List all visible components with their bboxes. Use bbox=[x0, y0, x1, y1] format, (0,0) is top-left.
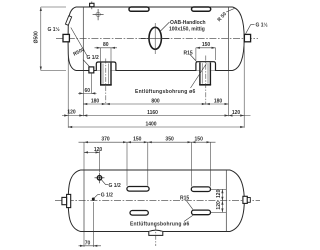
bottom nozzle 2 pipe bbox=[199, 56, 211, 105]
right dished head bbox=[233, 7, 245, 71]
plan slot 1 bbox=[127, 187, 149, 192]
svg-text:150: 150 bbox=[195, 137, 204, 143]
60 dimension bbox=[78, 71, 97, 117]
svg-text:350: 350 bbox=[165, 137, 174, 143]
svg-text:Entlüftungsbohrung ø6: Entlüftungsbohrung ø6 bbox=[135, 89, 196, 95]
svg-text:180: 180 bbox=[214, 99, 223, 105]
svg-text:120: 120 bbox=[94, 147, 103, 153]
Entlueftungsbohrung label with leader bbox=[135, 64, 207, 96]
Entlueftungsbohrung label plan with leader bbox=[130, 215, 194, 228]
plan drain G 1/2 label with leader bbox=[94, 192, 113, 198]
svg-text:150: 150 bbox=[202, 42, 211, 48]
plan bottom center boss bbox=[149, 226, 163, 247]
bottom nozzle 2 reinforcement pad bbox=[196, 62, 216, 71]
plan centerline bbox=[55, 200, 260, 202]
svg-text:70: 70 bbox=[85, 240, 91, 246]
svg-text:100x150, mittig: 100x150, mittig bbox=[169, 27, 205, 33]
svg-text:G 1/2: G 1/2 bbox=[109, 183, 121, 189]
horizontal centerline bbox=[56, 38, 258, 40]
svg-text:R15: R15 bbox=[180, 196, 189, 202]
handhole ellipse bbox=[141, 23, 170, 54]
plan bottom line bbox=[81, 231, 231, 233]
R 50 label with leader (right knuckle) bbox=[216, 8, 235, 23]
slot pad A on top line bbox=[129, 7, 149, 11]
svg-text:120: 120 bbox=[216, 189, 222, 198]
svg-text:60: 60 bbox=[85, 88, 91, 94]
plan slot 3 bbox=[192, 210, 211, 215]
bottom nozzle 1 pipe bbox=[100, 59, 112, 105]
svg-text:180: 180 bbox=[91, 98, 100, 104]
position crosshair mark bbox=[93, 9, 104, 20]
G 1 1/2 label right with leader bbox=[246, 21, 268, 34]
plan slot 2 bbox=[191, 187, 210, 192]
svg-text:Entlüftungsbohrung ø6: Entlüftungsbohrung ø6 bbox=[130, 222, 189, 228]
150 dimension (nozzle 2 pad) bbox=[196, 48, 216, 60]
small coupling on left head crown bbox=[65, 16, 71, 26]
svg-text:120: 120 bbox=[232, 110, 241, 116]
120/120 vertical dimensions right bbox=[211, 189, 227, 212]
120 / 1160 / 120 dimension row bbox=[62, 43, 251, 128]
R15 label with leader (pad radius) bbox=[184, 51, 197, 62]
plan vent G 1/2 label with leader bbox=[101, 180, 121, 189]
plan right head bbox=[230, 170, 244, 232]
svg-text:1160: 1160 bbox=[147, 110, 158, 116]
370/150/350/150 dimension row bbox=[79, 142, 216, 186]
plan vent G1/2 symbol bbox=[95, 173, 105, 184]
plan left head bbox=[68, 170, 80, 232]
tank shell bottom line bbox=[76, 70, 233, 72]
svg-text:120: 120 bbox=[67, 110, 76, 116]
svg-text:370: 370 bbox=[101, 137, 110, 143]
svg-text:150: 150 bbox=[133, 137, 142, 143]
plan right axial nozzle with flange bbox=[243, 196, 250, 203]
svg-text:OAB-Handloch: OAB-Handloch bbox=[170, 20, 206, 26]
leader line for R500 / G 1/2 bbox=[71, 28, 88, 57]
svg-text:G 1/2: G 1/2 bbox=[87, 55, 99, 61]
bottom nozzle 1 reinforcement pad bbox=[96, 62, 116, 71]
svg-text:80: 80 bbox=[103, 42, 109, 48]
plan right seam line bbox=[225, 170, 227, 232]
R15 label plan with leader bbox=[180, 196, 194, 211]
top vent nozzle G1/2 bbox=[90, 2, 94, 10]
svg-text:120: 120 bbox=[216, 201, 222, 210]
svg-text:Ø500: Ø500 bbox=[34, 31, 40, 43]
80 dimension (nozzle 1) bbox=[95, 48, 118, 62]
left head bottom drain nozzle bbox=[89, 67, 94, 94]
svg-text:G 1/2: G 1/2 bbox=[101, 192, 113, 198]
handhole label with leader bbox=[160, 20, 206, 33]
left head weld seam line bbox=[82, 7, 84, 71]
plan left seam line bbox=[83, 170, 85, 232]
svg-text:1400: 1400 bbox=[145, 121, 156, 127]
right axial nozzle G 1 1/2 bbox=[244, 34, 250, 41]
slot pad B on top line bbox=[192, 7, 211, 11]
svg-text:800: 800 bbox=[151, 99, 160, 105]
left axial nozzle G 1 1/2 bbox=[63, 34, 69, 41]
svg-text:G 1½: G 1½ bbox=[256, 21, 268, 28]
svg-text:R15: R15 bbox=[184, 51, 193, 57]
left dished head bbox=[68, 7, 76, 71]
svg-text:G 1½: G 1½ bbox=[48, 26, 60, 33]
plan top line bbox=[81, 169, 231, 171]
plan drain dot on centerline bbox=[92, 198, 95, 201]
70 dimension (drain position) bbox=[79, 202, 102, 247]
1400 overall dimension bbox=[68, 126, 244, 128]
dia 500 dimension bbox=[41, 7, 66, 71]
120 sub dimension (vent position) bbox=[84, 150, 100, 172]
tank shell top line bbox=[76, 6, 233, 8]
right head weld seam line bbox=[228, 7, 230, 71]
plan left axial nozzle with flange bbox=[62, 194, 71, 207]
plan slot 4 bbox=[130, 211, 148, 216]
180 / 800 / 180 dimension row bbox=[83, 71, 228, 117]
